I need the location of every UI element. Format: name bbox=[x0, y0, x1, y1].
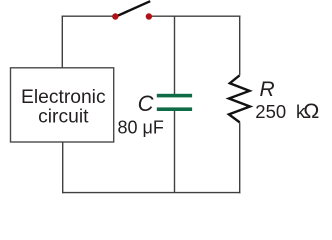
wire: box bottom to bottom rail bbox=[62, 142, 64, 193]
capacitor C top plate bbox=[157, 94, 192, 98]
switch contact dot right bbox=[146, 13, 152, 19]
wire: box top to top rail bbox=[61, 16, 63, 68]
wire: right branch upper bbox=[239, 16, 241, 76]
wire: bottom rail bbox=[62, 192, 240, 194]
svg-text:Electronic: Electronic bbox=[21, 87, 106, 108]
capacitor C bottom plate bbox=[157, 107, 192, 111]
wire: top rail right segment bbox=[150, 15, 240, 17]
svg-text:80 μF: 80 μF bbox=[118, 117, 164, 137]
switch contact dot left bbox=[112, 13, 118, 19]
wire: right branch lower bbox=[239, 122, 241, 193]
electronic circuit box bbox=[11, 68, 114, 142]
svg-text:250: 250 bbox=[255, 101, 286, 122]
svg-text:circuit: circuit bbox=[38, 106, 89, 127]
svg-text:Ω: Ω bbox=[303, 99, 319, 123]
svg-text:C: C bbox=[138, 91, 154, 116]
wire: capacitor branch upper bbox=[174, 16, 176, 95]
resistor R zigzag bbox=[229, 75, 250, 122]
wire: top rail left segment bbox=[62, 15, 114, 17]
svg-text:R: R bbox=[260, 78, 275, 101]
switch lever bbox=[115, 1, 150, 17]
wire: capacitor branch lower bbox=[174, 111, 176, 193]
